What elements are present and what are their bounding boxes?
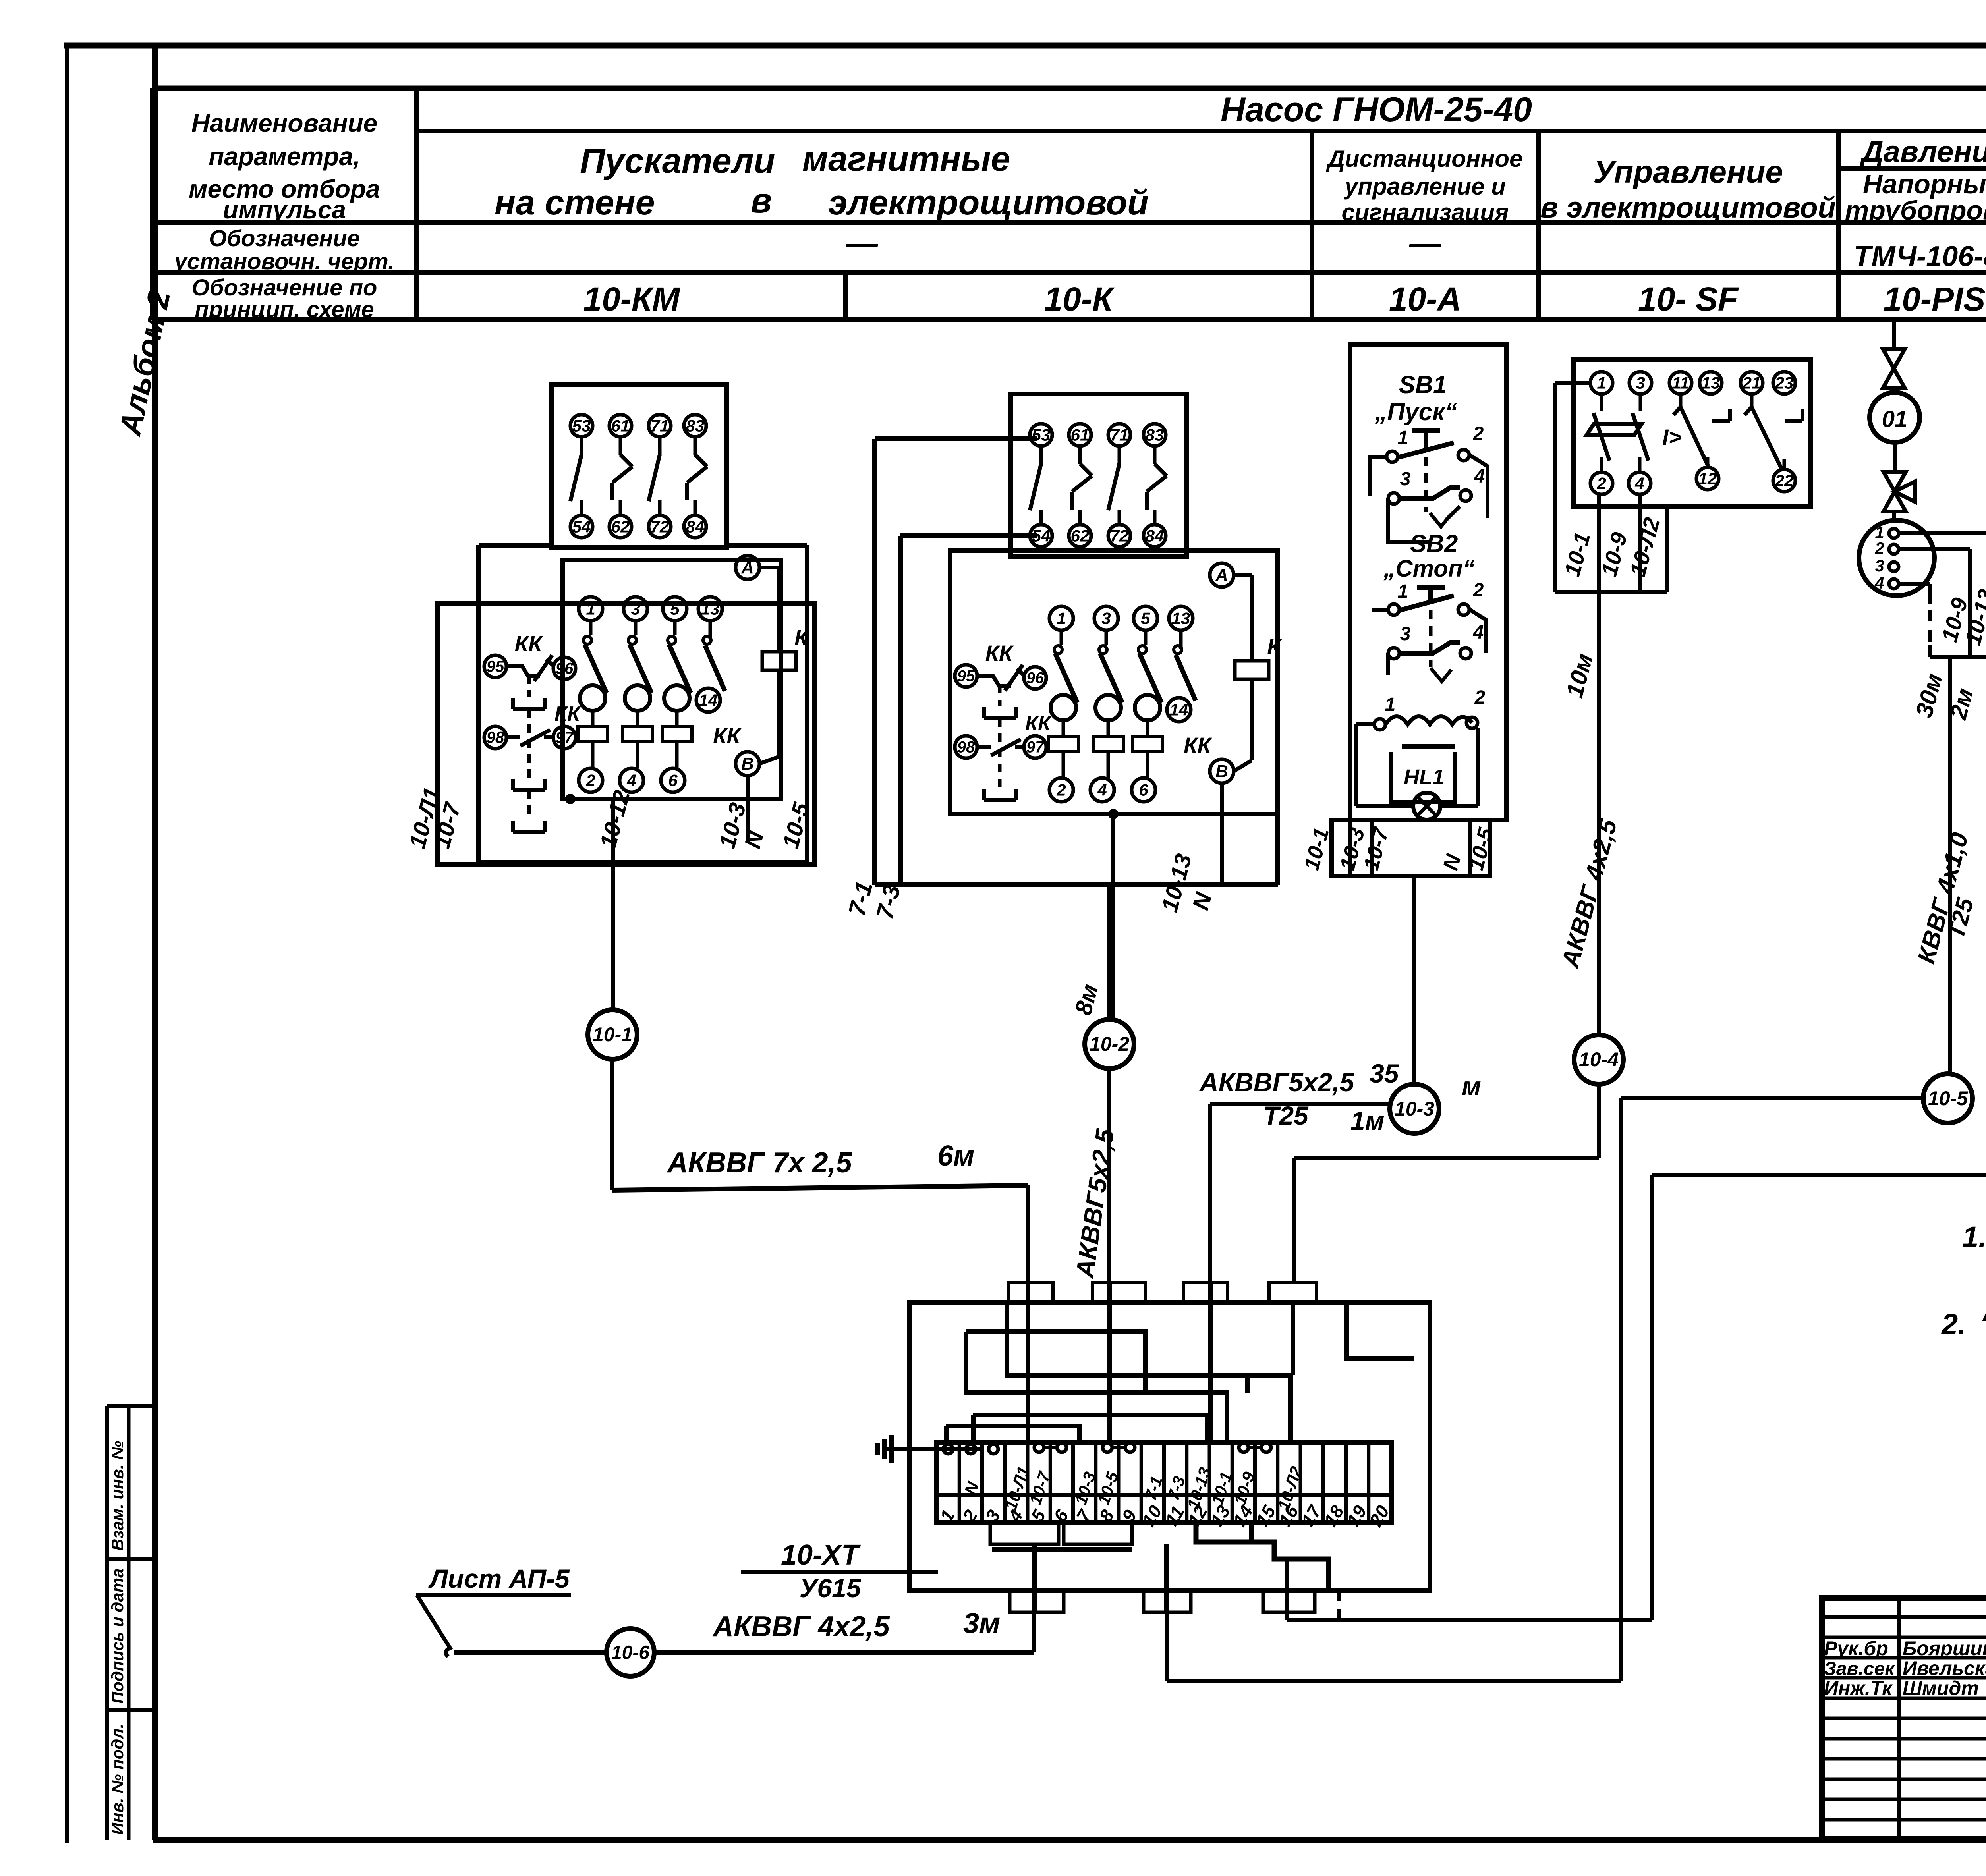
svg-text:Зав.сек: Зав.сек xyxy=(1824,1658,1895,1679)
svg-text:Дистанционное: Дистанционное xyxy=(1326,145,1523,172)
svg-text:72: 72 xyxy=(651,517,669,536)
svg-text:10- SF: 10- SF xyxy=(1638,280,1739,318)
svg-text:Инв. № подл.: Инв. № подл. xyxy=(108,1724,127,1835)
svg-text:У615: У615 xyxy=(800,1573,862,1603)
svg-text:Пускатели: Пускатели xyxy=(580,141,775,180)
svg-text:2: 2 xyxy=(1056,780,1066,799)
svg-text:„Пуск“: „Пуск“ xyxy=(1375,398,1457,426)
svg-text:2: 2 xyxy=(1874,539,1884,558)
svg-text:2: 2 xyxy=(1473,423,1484,444)
svg-text:11: 11 xyxy=(1672,373,1689,392)
svg-text:К: К xyxy=(794,625,809,650)
svg-text:71: 71 xyxy=(1110,425,1129,444)
svg-text:К: К xyxy=(1267,634,1282,659)
svg-text:3м: 3м xyxy=(963,1608,1000,1639)
svg-text:Рук.бр: Рук.бр xyxy=(1824,1637,1888,1660)
svg-text:АКВВГ 7х 2,5: АКВВГ 7х 2,5 xyxy=(667,1147,852,1179)
svg-text:—: — xyxy=(846,226,878,261)
svg-text:КК: КК xyxy=(713,723,742,748)
svg-text:61: 61 xyxy=(1071,425,1090,444)
svg-text:SB2: SB2 xyxy=(1410,530,1458,558)
svg-text:5: 5 xyxy=(670,599,680,618)
svg-text:10-К: 10-К xyxy=(1044,280,1115,318)
svg-text:62: 62 xyxy=(611,517,630,536)
svg-text:10-PIS: 10-PIS xyxy=(1884,280,1986,318)
svg-text:10-КМ: 10-КМ xyxy=(583,280,680,318)
svg-text:Т25: Т25 xyxy=(1263,1101,1309,1130)
svg-text:КК: КК xyxy=(554,703,581,726)
svg-text:3: 3 xyxy=(1400,623,1411,645)
svg-text:параметра,: параметра, xyxy=(209,142,360,171)
svg-text:1: 1 xyxy=(1398,427,1408,448)
svg-text:83: 83 xyxy=(686,416,705,435)
svg-text:2: 2 xyxy=(1596,474,1606,492)
svg-text:Давление: Давление xyxy=(1859,135,1986,169)
svg-text:83: 83 xyxy=(1146,425,1164,444)
svg-text:10-2: 10-2 xyxy=(1090,1033,1129,1055)
svg-text:2: 2 xyxy=(1473,580,1484,601)
svg-text:97: 97 xyxy=(1026,739,1045,756)
svg-text:1: 1 xyxy=(1398,581,1408,602)
svg-text:3: 3 xyxy=(1101,609,1111,627)
svg-text:96: 96 xyxy=(556,660,574,677)
svg-text:м: м xyxy=(1462,1071,1481,1101)
svg-text:в: в xyxy=(751,181,772,220)
svg-text:Управление: Управление xyxy=(1593,154,1783,189)
svg-text:53: 53 xyxy=(572,416,591,435)
svg-text:А: А xyxy=(741,558,754,577)
svg-text:6: 6 xyxy=(668,771,678,789)
svg-text:на стене: на стене xyxy=(495,183,655,222)
svg-text:1: 1 xyxy=(1597,373,1606,392)
svg-text:4: 4 xyxy=(626,771,636,789)
svg-text:трубопровод: трубопровод xyxy=(1845,195,1986,226)
svg-text:АКВВГ5х2,5: АКВВГ5х2,5 xyxy=(1199,1067,1355,1097)
svg-text:6: 6 xyxy=(1139,780,1148,799)
svg-text:98: 98 xyxy=(487,729,504,747)
svg-text:ТМЧ-106-83: ТМЧ-106-83 xyxy=(1854,241,1986,272)
svg-text:2.: 2. xyxy=(1941,1308,1966,1341)
svg-text:Обозначение: Обозначение xyxy=(209,226,360,251)
svg-text:14: 14 xyxy=(699,691,718,709)
svg-text:Лист АП-5: Лист АП-5 xyxy=(428,1564,570,1593)
svg-text:КК: КК xyxy=(1184,733,1212,758)
svg-text:1: 1 xyxy=(1057,609,1066,627)
svg-text:В: В xyxy=(1215,762,1228,781)
svg-text:4: 4 xyxy=(1874,573,1884,592)
svg-text:АКВВГ 4х2,5: АКВВГ 4х2,5 xyxy=(712,1611,890,1642)
svg-text:„Стоп“: „Стоп“ xyxy=(1383,555,1474,582)
svg-text:Инж.Тк: Инж.Тк xyxy=(1824,1677,1893,1699)
svg-text:I>: I> xyxy=(1662,425,1681,450)
svg-text:электрощитовой: электрощитовой xyxy=(828,183,1149,222)
svg-text:В: В xyxy=(741,754,754,774)
svg-text:А: А xyxy=(1215,566,1228,585)
svg-text:3: 3 xyxy=(1875,556,1884,575)
svg-text:10-3: 10-3 xyxy=(1395,1098,1434,1120)
svg-text:10-1: 10-1 xyxy=(593,1023,632,1046)
svg-text:2: 2 xyxy=(1474,687,1486,708)
svg-text:53: 53 xyxy=(1032,425,1051,444)
svg-text:10-ХТ: 10-ХТ xyxy=(781,1539,861,1571)
svg-text:13: 13 xyxy=(1172,609,1190,627)
svg-text:SB1: SB1 xyxy=(1399,371,1447,399)
svg-text:принцип. схеме: принцип. схеме xyxy=(195,297,374,322)
svg-text:импульса: импульса xyxy=(223,195,346,224)
svg-text:Ивельская: Ивельская xyxy=(1903,1657,1986,1679)
svg-text:Шмидт: Шмидт xyxy=(1903,1677,1979,1699)
svg-text:98: 98 xyxy=(957,739,975,756)
svg-text:10-6: 10-6 xyxy=(611,1642,649,1663)
svg-text:1: 1 xyxy=(1385,694,1396,715)
svg-text:95: 95 xyxy=(957,668,975,685)
svg-text:Бояршинов: Бояршинов xyxy=(1903,1637,1986,1660)
svg-text:5: 5 xyxy=(1141,609,1150,627)
svg-text:КК: КК xyxy=(985,641,1014,666)
svg-text:13: 13 xyxy=(701,599,720,618)
svg-text:3: 3 xyxy=(1636,373,1645,392)
svg-text:Насос ГНОМ-25-40: Насос ГНОМ-25-40 xyxy=(1221,91,1532,129)
svg-text:21: 21 xyxy=(1742,373,1761,392)
svg-text:12: 12 xyxy=(1698,469,1717,488)
svg-text:10-А: 10-А xyxy=(1389,280,1461,318)
svg-text:84: 84 xyxy=(686,517,705,536)
svg-text:сигнализация: сигнализация xyxy=(1341,199,1509,226)
svg-text:КК: КК xyxy=(515,631,543,656)
svg-text:61: 61 xyxy=(611,416,630,435)
svg-text:HL1: HL1 xyxy=(1404,765,1444,789)
svg-text:Напорный: Напорный xyxy=(1863,169,1986,199)
svg-text:магнитные: магнитные xyxy=(802,139,1010,178)
svg-text:1. Схема выполнена на основани: 1. Схема выполнена на основании схемы xyxy=(1962,1220,1986,1253)
svg-text:71: 71 xyxy=(651,416,669,435)
svg-text:10-5: 10-5 xyxy=(1928,1087,1968,1110)
svg-text:4: 4 xyxy=(1473,622,1484,643)
svg-text:54: 54 xyxy=(572,517,591,536)
svg-text:95: 95 xyxy=(487,658,504,676)
svg-text:3: 3 xyxy=(1400,469,1411,490)
svg-text:13: 13 xyxy=(1702,373,1720,392)
svg-text:6м: 6м xyxy=(937,1140,974,1172)
svg-text:96: 96 xyxy=(1026,670,1044,687)
svg-text:в электрощитовой: в электрощитовой xyxy=(1540,191,1836,224)
svg-text:установочн. черт.: установочн. черт. xyxy=(173,249,394,274)
svg-text:4: 4 xyxy=(1634,474,1644,492)
svg-text:КК: КК xyxy=(1025,712,1052,735)
svg-text:22: 22 xyxy=(1775,471,1794,490)
svg-text:97: 97 xyxy=(556,729,574,747)
svg-text:1м: 1м xyxy=(1350,1106,1385,1135)
svg-text:Взам. инв. №: Взам. инв. № xyxy=(108,1441,127,1551)
svg-text:35: 35 xyxy=(1370,1059,1399,1088)
svg-text:Подпись и дата: Подпись и дата xyxy=(108,1569,127,1704)
svg-text:3: 3 xyxy=(631,599,640,618)
svg-text:62: 62 xyxy=(1071,526,1090,545)
svg-text:01: 01 xyxy=(1882,406,1908,432)
svg-text:84: 84 xyxy=(1146,526,1164,545)
svg-text:4: 4 xyxy=(1097,780,1107,799)
svg-text:72: 72 xyxy=(1110,526,1129,545)
svg-text:управление и: управление и xyxy=(1343,173,1506,200)
svg-text:Наименование: Наименование xyxy=(191,109,377,137)
svg-text:1: 1 xyxy=(586,599,595,618)
svg-text:10-4: 10-4 xyxy=(1579,1048,1619,1071)
svg-text:2: 2 xyxy=(585,771,595,789)
svg-text:4: 4 xyxy=(1474,466,1485,487)
svg-text:23: 23 xyxy=(1775,373,1794,392)
svg-text:14: 14 xyxy=(1170,700,1188,719)
svg-text:—: — xyxy=(1409,226,1441,261)
